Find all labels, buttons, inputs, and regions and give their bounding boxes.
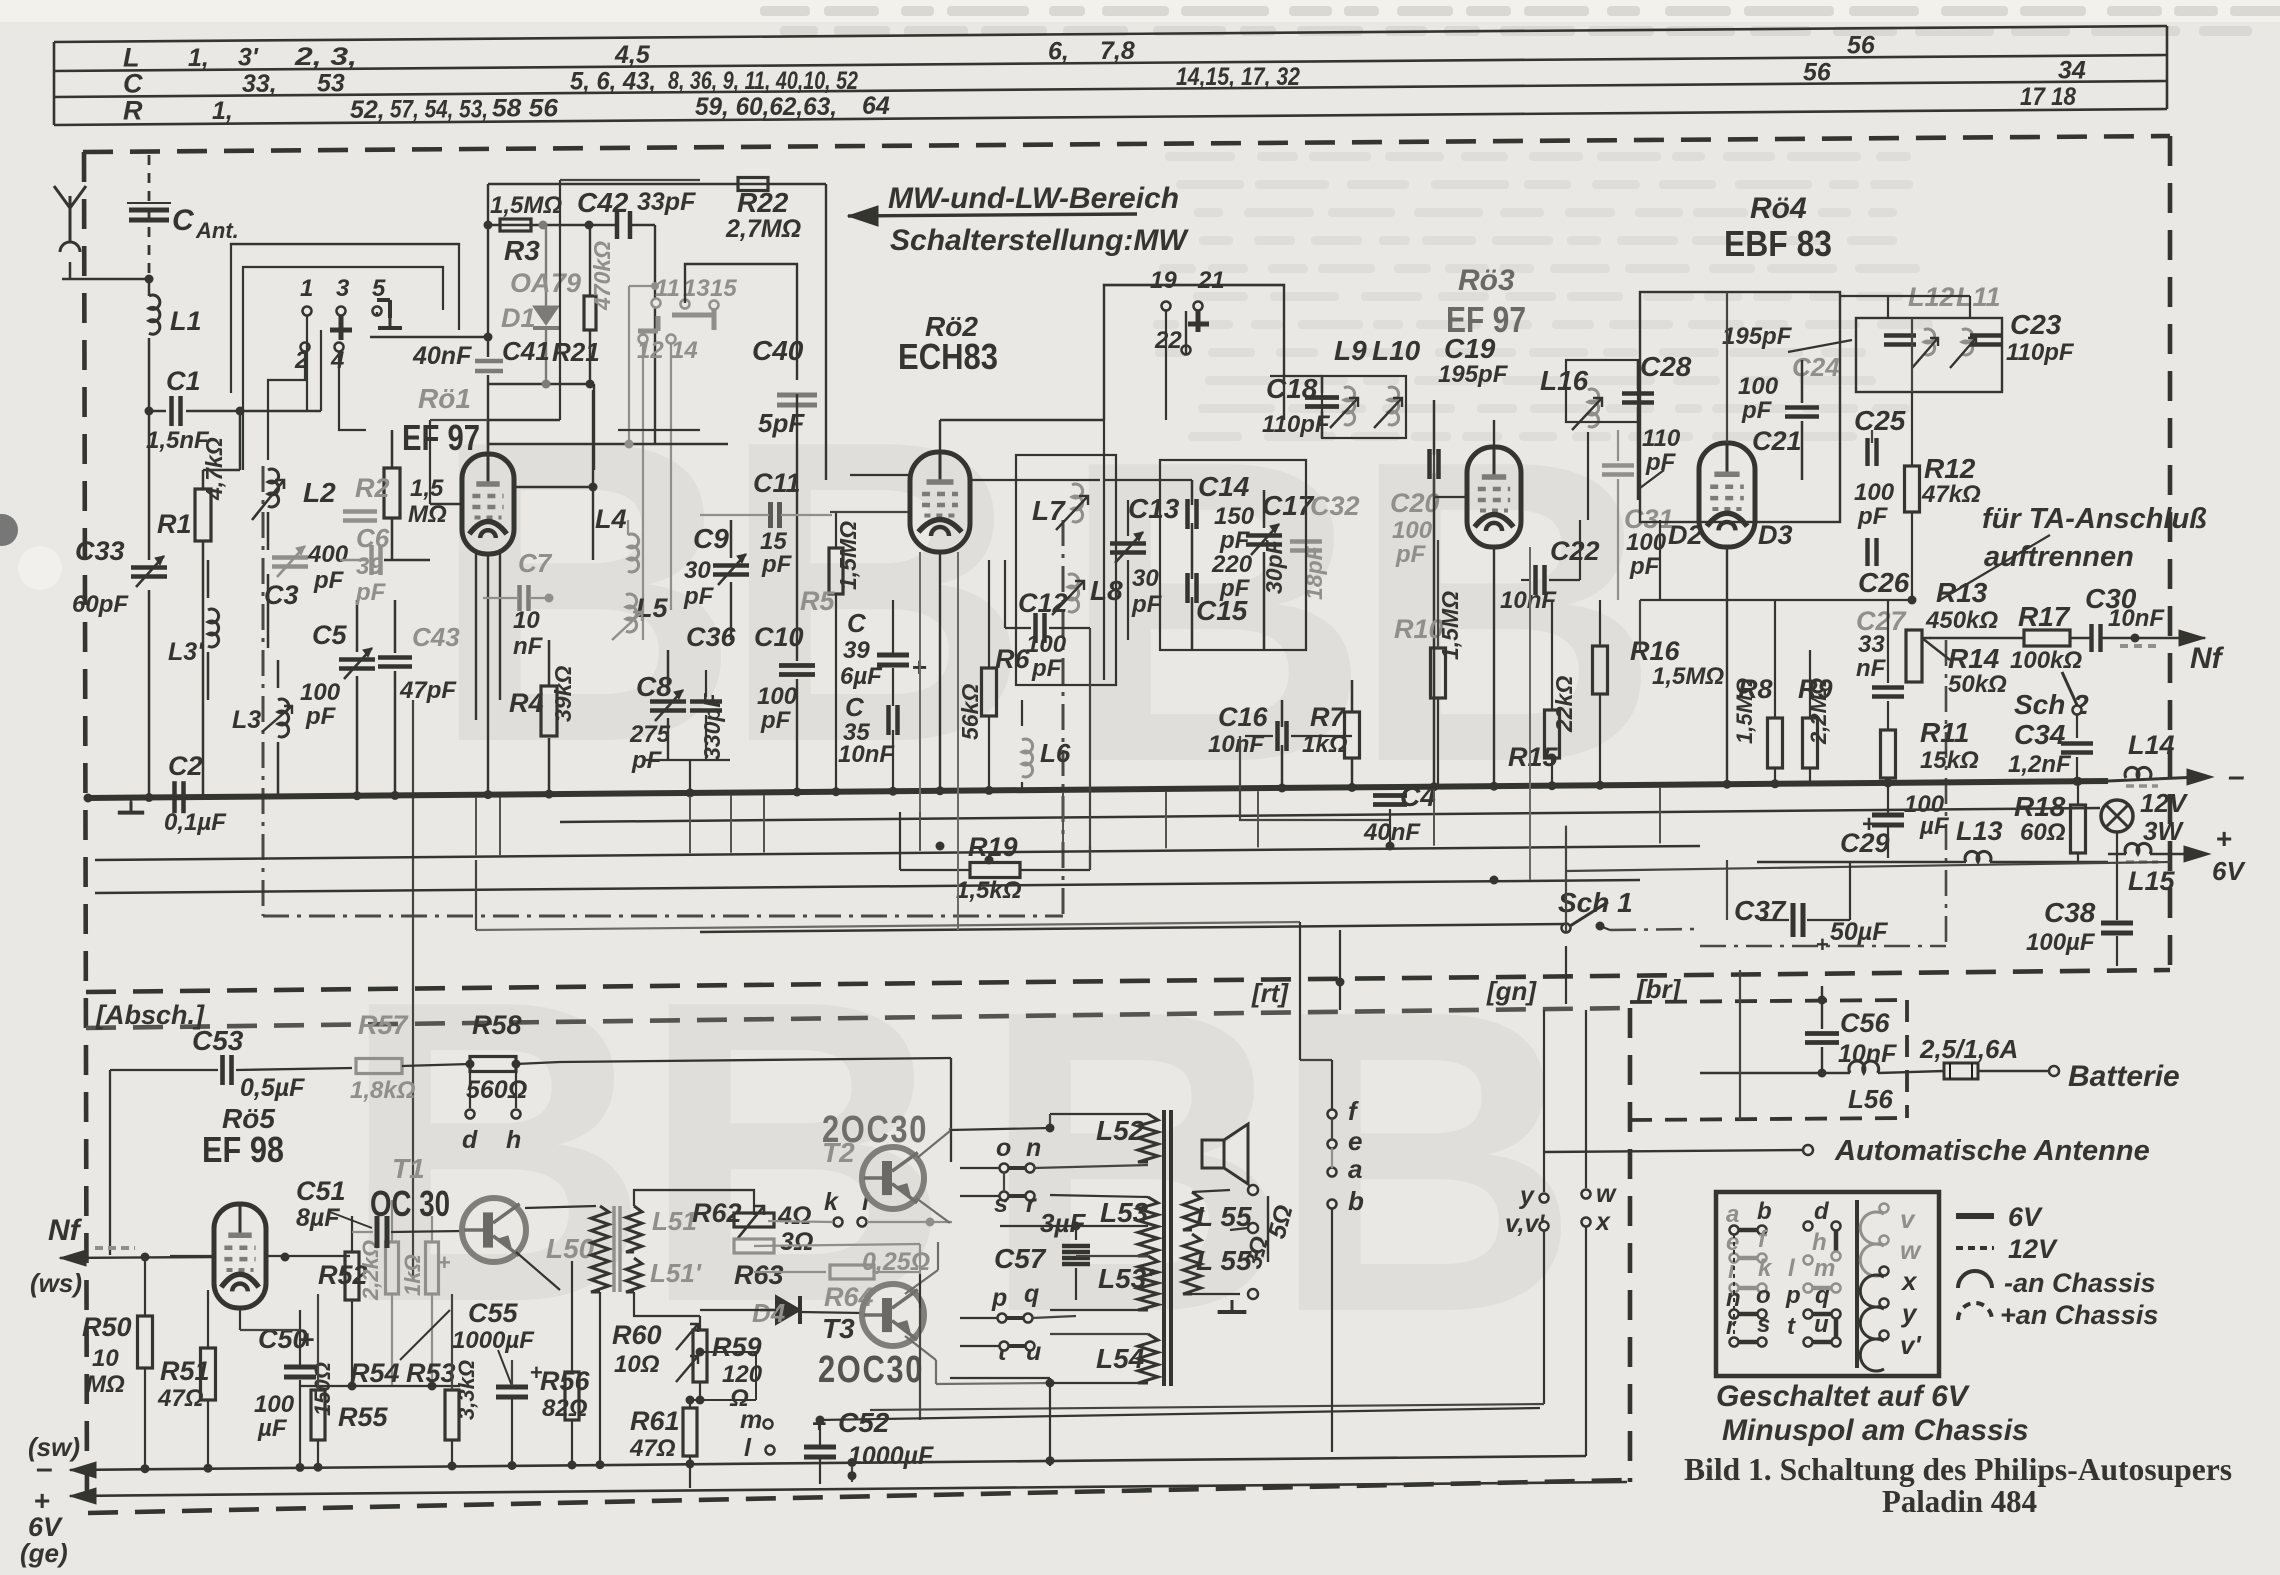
svg-text:C14: C14 (1198, 471, 1250, 502)
svg-text:s: s (1757, 1311, 1770, 1338)
svg-text:C57: C57 (994, 1243, 1047, 1274)
svg-text:79: 79 (551, 268, 581, 298)
svg-text:R17: R17 (2018, 601, 2071, 632)
svg-text:a: a (1726, 1201, 1739, 1228)
svg-text:C26: C26 (1858, 567, 1910, 598)
svg-text:C29: C29 (1840, 828, 1890, 858)
svg-text:470kΩ: 470kΩ (589, 241, 615, 311)
svg-text:275: 275 (629, 721, 671, 748)
svg-text:k: k (1758, 1255, 1773, 1282)
svg-text:400: 400 (307, 541, 349, 568)
svg-text:C25: C25 (1854, 405, 1906, 436)
svg-text:T1: T1 (392, 1153, 425, 1184)
svg-text:56: 56 (1847, 31, 1876, 59)
svg-text:MW-und-LW-Bereich: MW-und-LW-Bereich (888, 182, 1179, 215)
svg-text:R4: R4 (509, 688, 544, 718)
svg-text:p: p (1785, 1282, 1801, 1309)
svg-text:1: 1 (300, 275, 313, 302)
svg-text:1,5MΩ: 1,5MΩ (1437, 591, 1463, 660)
svg-text:C7: C7 (518, 548, 553, 578)
svg-text:o: o (996, 1134, 1011, 1162)
svg-text:1,8kΩ: 1,8kΩ (350, 1077, 416, 1104)
svg-text:3Ω: 3Ω (780, 1228, 813, 1256)
svg-text:pF: pF (761, 551, 793, 578)
svg-text:C9: C9 (693, 523, 729, 554)
svg-text:C51: C51 (296, 1176, 346, 1206)
svg-text:15kΩ: 15kΩ (1920, 747, 1979, 774)
svg-text:1,2nF: 1,2nF (2008, 751, 2072, 778)
svg-text:L 55: L 55 (1196, 1201, 1252, 1232)
svg-text:R61: R61 (630, 1406, 680, 1436)
svg-text:12V: 12V (2008, 1234, 2058, 1264)
svg-text:C38: C38 (2044, 897, 2096, 928)
svg-text:C5: C5 (312, 620, 347, 650)
svg-text:100: 100 (757, 683, 798, 710)
svg-text:auftrennen: auftrennen (1984, 541, 2134, 573)
svg-text:+an Chassis: +an Chassis (2000, 1300, 2158, 1330)
svg-text:4,5: 4,5 (614, 41, 651, 69)
svg-text:L14: L14 (2128, 730, 2175, 760)
svg-text:10nF: 10nF (838, 741, 895, 768)
svg-text:nF: nF (1856, 655, 1887, 682)
svg-text:2,7MΩ: 2,7MΩ (725, 215, 801, 243)
svg-text:R60: R60 (612, 1320, 662, 1350)
svg-text:R2: R2 (355, 473, 390, 503)
svg-text:C34: C34 (2014, 719, 2066, 750)
svg-text:Schalterstellung:MW: Schalterstellung:MW (890, 224, 1189, 257)
svg-text:R16: R16 (1630, 636, 1681, 666)
svg-text:q: q (1815, 1282, 1830, 1309)
svg-text:22: 22 (1154, 327, 1182, 354)
svg-text:–: – (2228, 760, 2245, 793)
svg-text:C52: C52 (838, 1407, 890, 1438)
svg-text:C55: C55 (468, 1298, 519, 1328)
svg-text:6µF: 6µF (840, 663, 883, 690)
svg-text:R3: R3 (504, 235, 540, 266)
svg-text:[rt]: [rt] (1251, 978, 1289, 1008)
svg-text:T2: T2 (822, 1137, 855, 1168)
svg-text:L3': L3' (168, 638, 204, 666)
svg-text:L13: L13 (1956, 816, 2003, 846)
svg-text:pF: pF (313, 567, 345, 594)
svg-text:34: 34 (2058, 56, 2086, 84)
svg-text:k: k (824, 1188, 839, 1216)
svg-text:R18: R18 (2014, 791, 2066, 822)
svg-text:100: 100 (1392, 517, 1433, 544)
svg-text:C: C (123, 69, 143, 99)
svg-text:C40: C40 (752, 335, 804, 366)
svg-text:L50: L50 (546, 1233, 595, 1264)
svg-text:pF: pF (1395, 541, 1427, 568)
svg-text:T3: T3 (822, 1313, 855, 1344)
svg-text:C: C (845, 692, 865, 722)
svg-text:OA: OA (510, 268, 551, 298)
svg-text:(ws): (ws) (30, 1268, 82, 1298)
svg-text:6V: 6V (2008, 1202, 2043, 1232)
svg-text:e: e (1726, 1229, 1739, 1256)
svg-text:5: 5 (372, 275, 386, 302)
svg-text:m: m (740, 1406, 762, 1434)
svg-text:(ge): (ge) (20, 1538, 68, 1568)
svg-text:Batterie: Batterie (2068, 1060, 2180, 1093)
svg-text:53: 53 (317, 70, 345, 98)
svg-text:y: y (1518, 1182, 1535, 1210)
svg-text:R7: R7 (1310, 702, 1346, 732)
svg-text:40nF: 40nF (412, 342, 472, 370)
svg-text:C11: C11 (753, 468, 801, 498)
svg-text:R57: R57 (358, 1010, 410, 1040)
svg-text:R5: R5 (800, 586, 835, 616)
svg-text:pF: pF (1031, 655, 1063, 682)
svg-text:C56: C56 (1840, 1008, 1891, 1038)
svg-text:D1: D1 (501, 303, 536, 333)
svg-text:Rö4: Rö4 (1750, 192, 1807, 225)
svg-text:Nf: Nf (2190, 642, 2225, 675)
svg-text:R55: R55 (338, 1402, 389, 1432)
svg-text:o: o (1756, 1282, 1771, 1309)
svg-text:pF: pF (683, 583, 715, 610)
svg-text:R13: R13 (1936, 577, 1988, 608)
svg-text:560Ω: 560Ω (466, 1076, 527, 1104)
svg-text:30: 30 (684, 557, 711, 584)
svg-text:110pF: 110pF (1262, 411, 1331, 438)
svg-text:60Ω: 60Ω (2020, 819, 2066, 846)
svg-text:e: e (1348, 1126, 1362, 1156)
svg-text:39: 39 (843, 637, 870, 664)
svg-text:L10: L10 (1372, 335, 1421, 366)
svg-text:3: 3 (336, 275, 350, 302)
svg-text:100: 100 (1026, 631, 1067, 658)
svg-text:14,15, 17, 32: 14,15, 17, 32 (1176, 63, 1300, 91)
svg-text:195pF: 195pF (1438, 361, 1509, 388)
svg-text:4,7kΩ: 4,7kΩ (201, 437, 227, 501)
svg-text:1,5: 1,5 (410, 475, 444, 502)
svg-text:q: q (1024, 1280, 1039, 1308)
svg-text:[gn]: [gn] (1486, 976, 1537, 1006)
svg-text:52,: 52, (350, 96, 385, 124)
svg-text:15: 15 (710, 275, 737, 302)
svg-text:µF: µF (257, 1415, 288, 1442)
svg-text:56kΩ: 56kΩ (957, 684, 983, 740)
svg-text:+: + (1816, 932, 1829, 957)
svg-text:33: 33 (1858, 631, 1885, 658)
svg-text:64: 64 (862, 92, 890, 120)
svg-text:Rö3: Rö3 (1458, 264, 1515, 297)
svg-text:pF: pF (355, 579, 387, 606)
svg-text:6,: 6, (1048, 38, 1069, 66)
svg-text:m: m (1814, 1255, 1835, 1282)
svg-text:Automatische Antenne: Automatische Antenne (1834, 1135, 2150, 1167)
svg-text:R51: R51 (160, 1356, 210, 1386)
svg-text:Minuspol am Chassis: Minuspol am Chassis (1722, 1414, 2029, 1447)
svg-text:[br]: [br] (1636, 974, 1682, 1004)
svg-text:n: n (1026, 1134, 1041, 1162)
svg-text:Bild 1. Schaltung des Philips-: Bild 1. Schaltung des Philips-Autosupers (1684, 1451, 2232, 1487)
svg-text:w: w (1900, 1235, 1922, 1265)
svg-text:D3: D3 (1758, 520, 1793, 550)
svg-text:33,: 33, (242, 70, 277, 98)
svg-text:R19: R19 (968, 832, 1018, 862)
svg-text:C22: C22 (1550, 536, 1600, 566)
svg-text:5, 6, 43,: 5, 6, 43, (570, 68, 656, 96)
svg-text:47Ω: 47Ω (157, 1385, 204, 1412)
svg-text:L6: L6 (1040, 738, 1071, 768)
svg-text:L52: L52 (1096, 1115, 1145, 1146)
svg-text:+: + (2216, 823, 2232, 854)
svg-text:R14: R14 (1948, 643, 2000, 674)
svg-text:10Ω: 10Ω (614, 1351, 660, 1378)
svg-text:C2: C2 (168, 751, 203, 781)
svg-text:5pF: 5pF (758, 408, 805, 438)
svg-text:33pF: 33pF (637, 188, 696, 216)
svg-text:17 18: 17 18 (2020, 83, 2076, 111)
svg-text:Paladin 484: Paladin 484 (1882, 1483, 2037, 1519)
svg-text:µF: µF (1919, 813, 1950, 840)
svg-text:C20: C20 (1390, 488, 1440, 518)
svg-text:EF 98: EF 98 (202, 1129, 284, 1170)
svg-text:R58: R58 (472, 1010, 522, 1040)
svg-text:L51: L51 (652, 1206, 697, 1236)
svg-text:C37: C37 (1734, 895, 1787, 926)
svg-text:100: 100 (1738, 373, 1779, 400)
svg-text:1,5MΩ: 1,5MΩ (835, 521, 861, 590)
svg-text:21: 21 (1197, 267, 1225, 294)
svg-text:Rö1: Rö1 (418, 383, 471, 414)
svg-text:y: y (1900, 1298, 1918, 1328)
svg-text:v: v (1900, 1204, 1916, 1234)
svg-text:C33: C33 (75, 536, 125, 566)
svg-text:-an Chassis: -an Chassis (2004, 1268, 2156, 1298)
svg-text:für TA-Anschluß: für TA-Anschluß (1982, 503, 2207, 535)
svg-text:pF: pF (305, 703, 337, 730)
svg-text:b: b (1757, 1198, 1772, 1225)
svg-text:2,5/1,6A: 2,5/1,6A (1919, 1034, 2018, 1064)
svg-text:110: 110 (1642, 425, 1681, 452)
svg-text:450kΩ: 450kΩ (1925, 607, 1998, 634)
svg-text:R1: R1 (157, 509, 192, 539)
svg-text:8µF: 8µF (296, 1204, 340, 1232)
svg-text:v': v' (1900, 1330, 1921, 1360)
svg-text:0,1µF: 0,1µF (164, 809, 227, 836)
svg-text:L2: L2 (303, 477, 336, 508)
svg-text:6V: 6V (2212, 856, 2246, 886)
svg-text:56: 56 (1803, 58, 1832, 86)
svg-text:19: 19 (1150, 267, 1177, 294)
svg-text:L16: L16 (1540, 365, 1589, 396)
svg-text:a: a (1348, 1154, 1362, 1184)
svg-text:0,5µF: 0,5µF (240, 1074, 305, 1102)
svg-text:1000µF: 1000µF (452, 1327, 535, 1354)
svg-text:47pF: 47pF (399, 677, 457, 704)
svg-text:C16: C16 (1218, 702, 1269, 732)
svg-text:x: x (1900, 1266, 1918, 1296)
svg-text:59, 60,62,63,: 59, 60,62,63, (695, 93, 837, 121)
svg-text:4Ω: 4Ω (777, 1202, 811, 1230)
svg-text:pF: pF (1857, 503, 1889, 530)
svg-text:100: 100 (254, 1391, 295, 1418)
svg-text:1kΩ: 1kΩ (400, 1254, 425, 1296)
svg-text:x: x (1594, 1208, 1611, 1236)
svg-text:110pF: 110pF (2006, 339, 2075, 366)
svg-text:Nf: Nf (48, 1214, 83, 1247)
svg-text:1000µF: 1000µF (848, 1442, 934, 1470)
svg-text:10nF: 10nF (1838, 1040, 1897, 1068)
svg-text:d: d (1814, 1198, 1830, 1225)
svg-text:C21: C21 (1752, 426, 1802, 456)
svg-text:OC 30: OC 30 (370, 1183, 450, 1224)
svg-text:C53: C53 (192, 1025, 244, 1056)
svg-text:7,8: 7,8 (1100, 37, 1135, 65)
svg-text:Ant.: Ant. (195, 218, 239, 243)
svg-text:R63: R63 (734, 1260, 784, 1290)
svg-text:R54: R54 (350, 1358, 400, 1388)
svg-text:EF 97: EF 97 (1446, 299, 1526, 340)
svg-text:330pF: 330pF (699, 693, 725, 760)
svg-text:1,5MΩ: 1,5MΩ (1732, 678, 1757, 744)
svg-text:b: b (1348, 1186, 1364, 1216)
svg-text:L8: L8 (1090, 575, 1123, 606)
svg-text:13: 13 (683, 275, 710, 302)
svg-text:30: 30 (1132, 565, 1159, 592)
svg-text:L7: L7 (1032, 495, 1066, 526)
svg-text:47Ω: 47Ω (629, 1435, 676, 1462)
svg-text:L1: L1 (170, 306, 202, 336)
svg-text:+: + (300, 1326, 315, 1354)
svg-text:47kΩ: 47kΩ (1921, 481, 1981, 508)
svg-text:R11: R11 (1920, 717, 1969, 748)
svg-text:150Ω: 150Ω (310, 1362, 335, 1416)
svg-text:pF: pF (1741, 397, 1773, 424)
svg-text:C15: C15 (1196, 595, 1248, 626)
svg-text:nF: nF (513, 633, 544, 660)
svg-text:C42: C42 (577, 187, 629, 218)
svg-text:R53: R53 (406, 1358, 456, 1388)
svg-text:h: h (1812, 1229, 1827, 1256)
svg-text:3µF: 3µF (1040, 1208, 1086, 1238)
svg-text:EBF 83: EBF 83 (1724, 223, 1832, 264)
svg-text:8, 36, 9, 11, 40,10, 52: 8, 36, 9, 11, 40,10, 52 (668, 67, 858, 95)
svg-text:L15: L15 (2128, 866, 2176, 896)
svg-text:2,2kΩ: 2,2kΩ (358, 1240, 383, 1301)
svg-text:10nF: 10nF (1500, 587, 1557, 614)
svg-text:Sch 1: Sch 1 (1558, 887, 1633, 918)
svg-text:C28: C28 (1640, 351, 1692, 382)
svg-text:60pF: 60pF (72, 591, 129, 618)
svg-text:C23: C23 (2010, 309, 2062, 340)
svg-text:220: 220 (1211, 551, 1253, 578)
svg-text:ECH83: ECH83 (898, 336, 998, 377)
svg-text:u: u (1814, 1311, 1829, 1338)
svg-text:p: p (991, 1284, 1007, 1312)
svg-text:B: B (980, 922, 1291, 1402)
svg-text:pF: pF (1219, 527, 1251, 554)
svg-text:100kΩ: 100kΩ (2010, 647, 2082, 674)
svg-text:10: 10 (92, 1345, 119, 1372)
svg-text:1,: 1, (212, 97, 233, 125)
svg-text:R50: R50 (82, 1312, 132, 1342)
svg-text:L51': L51' (650, 1258, 702, 1288)
svg-text:Geschaltet auf 6V: Geschaltet auf 6V (1716, 1380, 1971, 1413)
svg-text:2, 3,: 2, 3, (294, 43, 357, 71)
svg-text:100: 100 (1854, 479, 1895, 506)
svg-text:R12: R12 (1924, 453, 1976, 484)
svg-text:+: + (438, 1250, 451, 1275)
svg-text:C36: C36 (686, 622, 737, 652)
svg-text:C13: C13 (1128, 493, 1180, 524)
svg-text:1,: 1, (188, 44, 209, 72)
svg-text:57, 54, 53,: 57, 54, 53, (390, 96, 488, 124)
svg-text:C: C (847, 608, 867, 638)
svg-text:L53: L53 (1100, 1197, 1149, 1228)
svg-text:R59: R59 (712, 1332, 762, 1362)
svg-text:100µF: 100µF (2026, 929, 2096, 956)
svg-text:3W: 3W (2143, 816, 2184, 846)
svg-text:58 56: 58 56 (492, 95, 559, 123)
svg-text:50µF: 50µF (1830, 918, 1888, 946)
svg-text:R22: R22 (737, 187, 789, 218)
svg-text:[Absch.]: [Absch.] (95, 1000, 205, 1030)
svg-text:C1: C1 (166, 366, 201, 396)
svg-text:–: – (36, 1452, 53, 1485)
svg-text:L9: L9 (1334, 335, 1367, 366)
svg-text:1,5MΩ: 1,5MΩ (490, 192, 562, 219)
svg-text:pF: pF (1629, 553, 1661, 580)
svg-text:1,5MΩ: 1,5MΩ (1652, 663, 1724, 690)
svg-text:3': 3' (238, 44, 259, 72)
svg-text:10: 10 (513, 607, 540, 634)
svg-text:12V: 12V (2140, 788, 2189, 818)
svg-text:MΩ: MΩ (86, 1371, 125, 1398)
svg-text:d: d (462, 1126, 478, 1154)
svg-text:t: t (1787, 1313, 1796, 1340)
svg-text:h: h (506, 1126, 521, 1154)
svg-text:195pF: 195pF (1722, 323, 1793, 350)
svg-text:L56: L56 (1848, 1084, 1893, 1114)
svg-text:22kΩ: 22kΩ (1551, 676, 1577, 733)
svg-text:pF: pF (1131, 591, 1163, 618)
svg-text:50kΩ: 50kΩ (1948, 671, 2007, 698)
svg-text:1,5kΩ: 1,5kΩ (956, 877, 1022, 904)
svg-text:L53': L53' (1098, 1263, 1154, 1294)
svg-text:C: C (172, 204, 195, 237)
svg-text:L54: L54 (1096, 1343, 1145, 1374)
svg-text:L3: L3 (232, 706, 261, 734)
svg-text:R: R (123, 96, 143, 126)
svg-text:D4: D4 (752, 1298, 786, 1328)
svg-text:w: w (1596, 1180, 1617, 1208)
svg-text:EF 97: EF 97 (402, 417, 480, 458)
svg-text:100: 100 (300, 679, 341, 706)
svg-text:C24: C24 (1792, 352, 1840, 382)
svg-text:L4: L4 (595, 504, 627, 534)
svg-text:l: l (744, 1434, 752, 1462)
svg-text:2OC30: 2OC30 (818, 1349, 924, 1391)
svg-text:40nF: 40nF (1363, 819, 1421, 846)
svg-text:C32: C32 (1310, 491, 1360, 521)
svg-text:39kΩ: 39kΩ (550, 666, 576, 722)
svg-text:10nF: 10nF (2108, 605, 2165, 632)
svg-text:pF: pF (760, 707, 792, 734)
svg-text:C43: C43 (412, 622, 460, 652)
svg-text:150: 150 (1214, 503, 1255, 530)
svg-text:C41: C41 (502, 336, 550, 366)
